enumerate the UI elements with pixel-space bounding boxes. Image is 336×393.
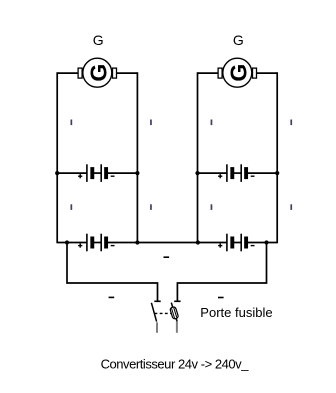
svg-text:G: G <box>93 32 104 48</box>
svg-text:G: G <box>85 64 111 82</box>
svg-text:Convertisseur 24v -> 240v_: Convertisseur 24v -> 240v_ <box>101 356 250 371</box>
svg-text:G: G <box>225 64 251 82</box>
svg-text:Porte fusible: Porte fusible <box>200 305 272 320</box>
svg-text:G: G <box>233 32 244 48</box>
